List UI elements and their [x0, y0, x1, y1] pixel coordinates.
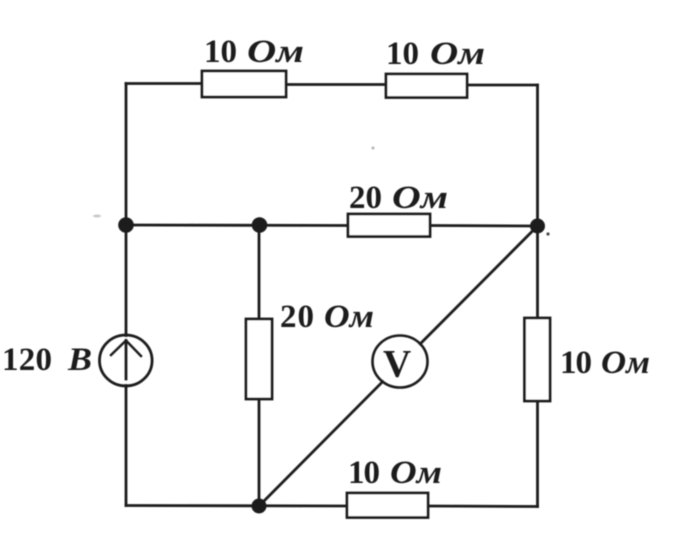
wire top: R2 to top-right corner: [467, 84, 538, 87]
svg-text:V: V: [383, 343, 411, 386]
svg-text:120: 120: [2, 342, 52, 378]
svg-text:В: В: [67, 342, 92, 378]
wire top: between R1 and R2: [286, 83, 386, 86]
resistor R1 (10 Om, top left): [202, 71, 286, 97]
svg-text:Ом: Ом: [324, 299, 374, 335]
wire top: left corner to R1: [126, 82, 202, 85]
wire right vertical (R5 to bottom-right corner): [536, 401, 539, 507]
wire diagonal: voltmeter to node D: [259, 382, 383, 506]
resistor R2 (10 Om, top right): [386, 74, 467, 98]
wire middle horizontal: node A to R3: [126, 224, 348, 227]
scan speck near node C: [546, 232, 549, 235]
svg-text:Ом: Ом: [430, 36, 485, 72]
resistor R5 (10 Om, right vertical): [525, 318, 551, 401]
svg-text:Ом: Ом: [392, 180, 448, 216]
source arrow shaft: [125, 341, 128, 380]
svg-text:10: 10: [204, 34, 237, 70]
wire middle vertical: node B to R4: [258, 225, 261, 319]
resistor R3 (20 Om, middle horizontal): [348, 214, 430, 237]
node D (bottom middle): [252, 499, 267, 514]
node B (middle, middle row): [252, 217, 268, 233]
source arrow head: [111, 341, 141, 357]
wire right vertical (node C to R5): [536, 226, 539, 318]
resistor R6 (10 Om, bottom): [347, 493, 428, 518]
svg-text:10: 10: [386, 36, 419, 72]
voltmeter PV1 circle: [373, 336, 428, 388]
svg-text:Ом: Ом: [390, 455, 442, 491]
wire bottom: left corner to R6: [126, 504, 347, 507]
svg-text:10: 10: [348, 455, 380, 491]
svg-text:20: 20: [280, 299, 314, 335]
wire bottom: R6 to bottom-right corner: [428, 505, 538, 508]
svg-text:20: 20: [349, 180, 382, 216]
wire middle vertical: R4 to node D: [258, 399, 261, 506]
wire left vertical (top corner to source): [125, 84, 128, 336]
current source E1 circle (120 V): [100, 335, 153, 386]
node A (left, middle row): [118, 217, 134, 233]
wire left vertical (source to bottom corner): [125, 386, 128, 506]
svg-text:Ом: Ом: [247, 34, 304, 70]
wire middle horizontal: R3 to node C: [430, 224, 538, 227]
wire right vertical (top corner to node C): [536, 85, 539, 226]
svg-text:10: 10: [560, 345, 592, 381]
node C (right, middle row): [530, 219, 545, 234]
resistor R4 (20 Om, middle vertical): [246, 319, 272, 399]
scan smudge left of node A: [93, 215, 101, 218]
svg-text:Ом: Ом: [601, 345, 650, 381]
wire diagonal: node C to voltmeter: [420, 226, 537, 344]
scan speck top middle: [372, 147, 375, 150]
